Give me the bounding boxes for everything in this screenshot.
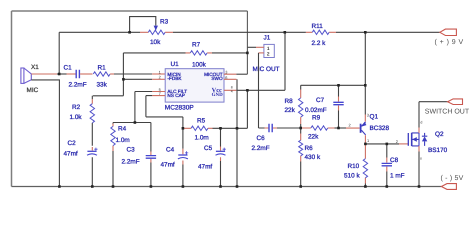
junction R7 / MICOUT / J1 pin1 vertical — [246, 52, 249, 55]
svg-text:J1: J1 — [264, 35, 271, 42]
svg-text:R3: R3 — [160, 18, 169, 25]
wire Q2 drain to switch out — [418, 102, 420, 133]
svg-text:R11: R11 — [312, 23, 324, 30]
svg-text:6: 6 — [225, 75, 227, 80]
resistor R2 — [90, 104, 94, 123]
capacitor C2 — [87, 148, 98, 156]
svg-text:2: 2 — [159, 75, 161, 80]
wire R9 net — [301, 127, 360, 129]
svg-text:1: 1 — [267, 46, 270, 52]
svg-text:1.0k: 1.0k — [70, 114, 83, 121]
U1 pin texts — [167, 72, 223, 98]
U1 body — [165, 69, 224, 102]
svg-text:1: 1 — [159, 69, 161, 74]
wire pin3 to vertical — [236, 73, 247, 75]
svg-text:R6: R6 — [305, 145, 314, 152]
wire V+ rail — [59, 31, 440, 33]
resistor R5 — [191, 126, 208, 130]
svg-text:MC2830P: MC2830P — [165, 104, 194, 111]
junction ground rail / SWO vertical — [236, 185, 239, 188]
svg-text:33k: 33k — [97, 82, 108, 89]
wire R7 net — [123, 52, 247, 54]
capacitor C5 — [216, 148, 226, 156]
wire R2 branch — [91, 96, 93, 187]
junction ground rail / R4 — [112, 185, 115, 188]
svg-text:BC328: BC328 — [370, 125, 390, 132]
connector SWITCH OUT — [448, 99, 463, 105]
capacitor C1 — [76, 70, 79, 79]
resistor R6 — [299, 140, 303, 156]
junction -FDBK pin 2 node — [122, 78, 125, 81]
svg-text:7: 7 — [159, 91, 161, 96]
junction ground rail / C3 — [150, 185, 153, 188]
Q2 pin labels — [396, 120, 423, 160]
wire C3 leads — [150, 123, 152, 187]
svg-text:2.2mF: 2.2mF — [252, 145, 270, 152]
svg-text:-FDBK: -FDBK — [167, 76, 182, 81]
mic X1 — [21, 68, 31, 83]
wire bottom ground rail — [12, 186, 442, 188]
junction ground rail / R10 — [364, 185, 367, 188]
svg-text:2: 2 — [267, 52, 270, 58]
wire V+ rail drop to mic — [58, 32, 60, 74]
svg-text:R7: R7 — [192, 42, 201, 49]
svg-text:R5: R5 — [197, 118, 206, 125]
wire R6 leads — [300, 128, 302, 187]
transistor Q1 BC328 — [361, 122, 367, 135]
svg-text:d: d — [420, 120, 422, 124]
svg-text:R10: R10 — [348, 163, 360, 170]
svg-text:Q1: Q1 — [370, 114, 379, 121]
junction ground rail / C2 — [91, 185, 94, 188]
svg-text:C7: C7 — [316, 97, 325, 104]
svg-text:2: 2 — [349, 123, 351, 128]
wire R10 leads — [364, 144, 366, 187]
wire feedback net R7/R2 to pin 2 — [93, 53, 165, 96]
wire C1 to R1 — [80, 73, 92, 75]
svg-text:0.02mF: 0.02mF — [305, 107, 327, 114]
wire J1 pin1 stub — [247, 46, 264, 48]
junction ALC FILT / R4 / C3 node — [134, 121, 137, 124]
svg-text:R9: R9 — [312, 114, 321, 121]
svg-text:2.2mF: 2.2mF — [69, 82, 87, 89]
resistor R10 — [363, 159, 367, 178]
capacitor C3 — [146, 156, 156, 159]
wire J1 pin2 to C6 — [259, 53, 301, 128]
connector J1 — [264, 44, 274, 57]
resistor R7 — [190, 51, 207, 55]
svg-text:22k: 22k — [308, 133, 319, 140]
svg-text:SWO: SWO — [211, 76, 223, 81]
svg-text:2.2mF: 2.2mF — [122, 159, 140, 166]
resistor R8 — [299, 98, 303, 117]
svg-text:47mf: 47mf — [64, 151, 78, 158]
wire C8 leads — [386, 144, 388, 187]
capacitor C8 — [382, 163, 392, 165]
Q1 pin numbers — [349, 113, 370, 144]
svg-text:SWITCH OUT: SWITCH OUT — [425, 108, 470, 115]
svg-text:C6: C6 — [257, 135, 266, 142]
svg-text:2: 2 — [396, 139, 398, 144]
U1 pin stubs left — [152, 92, 165, 96]
svg-text:R1: R1 — [98, 65, 107, 72]
svg-text:4: 4 — [231, 89, 233, 93]
wire C5 leads — [220, 128, 222, 186]
wire Q1 collector lead — [364, 135, 366, 144]
svg-text:430 k: 430 k — [305, 154, 321, 161]
junction NS CAP / R5 / C4 node — [182, 127, 185, 130]
wire switch out — [419, 101, 448, 103]
wire C7 leads — [338, 85, 340, 128]
svg-text:1.0m: 1.0m — [195, 135, 209, 142]
svg-text:C8: C8 — [390, 157, 399, 164]
wire collector net to Q2 gate — [365, 143, 408, 145]
U1 pin stubs right — [224, 74, 236, 90]
junction ground rail / R6 — [299, 185, 302, 188]
U1 pin numbers — [159, 69, 233, 96]
resistor R3 (pot body) — [130, 17, 166, 35]
svg-text:BS170: BS170 — [428, 147, 448, 154]
junction ground rail / C8 — [386, 185, 389, 188]
resistor R1 — [93, 72, 110, 76]
svg-text:1 mF: 1 mF — [390, 173, 405, 180]
wire Q1 emitter to V+ — [364, 32, 366, 121]
capacitor C4 — [178, 151, 188, 159]
junction V+ rail / R3 wiper node — [128, 31, 131, 34]
junction mic / R3 / C1 node — [58, 73, 61, 76]
junction ground rail / mic return — [58, 185, 61, 188]
junction Vcc-GND stub / R5 net drop — [246, 89, 249, 92]
svg-text:3: 3 — [225, 70, 227, 75]
wire Q2 source to ground — [418, 146, 420, 187]
wire R1 to U1 pin 1 — [110, 73, 165, 75]
junction ground rail / C4 — [182, 185, 185, 188]
junction R8 top net / Q1 emitter vertical — [364, 84, 367, 87]
wire NS CAP branch — [146, 96, 183, 129]
wire border top — [12, 10, 248, 12]
svg-text:U1: U1 — [171, 61, 180, 68]
svg-text:( - ) 5V: ( - ) 5V — [441, 174, 464, 182]
svg-text:R8: R8 — [285, 98, 294, 105]
resistor R9 — [311, 126, 328, 130]
svg-text:R4: R4 — [118, 125, 127, 132]
junction R5 net / SWO vertical — [236, 127, 239, 130]
svg-text:1.0m: 1.0m — [116, 137, 130, 144]
svg-text:X1: X1 — [31, 64, 39, 71]
capacitor C6 — [269, 124, 272, 133]
svg-text:C2: C2 — [68, 140, 77, 147]
wire border left — [11, 11, 13, 187]
wire R8 bottom lead — [300, 117, 302, 128]
svg-text:2.2 k: 2.2 k — [312, 40, 327, 47]
resistor R4 — [111, 126, 115, 145]
junction R9 / C7 / Q1 base node — [337, 127, 340, 130]
wire mic ground — [31, 80, 59, 187]
svg-text:22k: 22k — [285, 107, 296, 114]
svg-text:47mf: 47mf — [161, 162, 175, 169]
svg-text:C4: C4 — [166, 147, 175, 154]
svg-text:MIC OUT: MIC OUT — [253, 66, 280, 73]
svg-text:MIC: MIC — [27, 87, 39, 94]
svg-text:( + ) 9 V: ( + ) 9 V — [435, 38, 464, 46]
junction V+ rail / Q1 emitter drop — [364, 31, 367, 34]
wire R4/C3 top — [113, 122, 151, 124]
wire R8 top net — [301, 85, 366, 98]
junction R8 top net / C7 top — [337, 84, 340, 87]
wire ALC FILT branch — [135, 92, 152, 123]
svg-text:10k: 10k — [150, 39, 161, 46]
resistor R11 — [312, 30, 329, 34]
wire mic output — [31, 73, 75, 75]
junction C6 / R8 / R9 / R6 node — [299, 127, 302, 130]
wire vertical to J1 pin 1 and U1 pin 3 — [246, 11, 248, 74]
junction V+ rail / U1 Vcc drop — [284, 31, 287, 34]
wire R4 leads — [112, 123, 114, 187]
svg-text:s: s — [420, 157, 422, 161]
capacitor C7 — [333, 102, 343, 104]
wire Vcc/GND to V+ — [236, 32, 285, 90]
svg-text:Q2: Q2 — [435, 131, 444, 138]
junction R5 / C5 node — [219, 127, 222, 130]
svg-text:C3: C3 — [127, 147, 136, 154]
svg-text:100k: 100k — [192, 62, 207, 69]
transistor Q2 BS170 — [408, 133, 427, 146]
junction Q1 collector / R10 / gate net — [364, 143, 367, 146]
svg-text:1: 1 — [367, 138, 369, 143]
junction gate net / C8 top — [386, 143, 389, 146]
svg-text:47mf: 47mf — [198, 164, 212, 171]
connector (-)5V — [441, 184, 456, 190]
svg-text:NS CAP: NS CAP — [167, 93, 184, 98]
connector (+)9V — [440, 29, 457, 35]
wire SWO branch — [236, 79, 238, 186]
wire C4 leads — [182, 128, 184, 186]
junction ground rail / C5 — [219, 185, 222, 188]
svg-text:GND: GND — [212, 92, 224, 98]
svg-text:510 k: 510 k — [344, 172, 360, 179]
svg-text:C5: C5 — [204, 145, 213, 152]
junction ground rail / Q2 source — [418, 185, 421, 188]
svg-text:3: 3 — [367, 113, 369, 118]
svg-text:R2: R2 — [72, 104, 81, 111]
svg-text:C1: C1 — [64, 65, 73, 72]
wire R5 net — [183, 90, 248, 128]
